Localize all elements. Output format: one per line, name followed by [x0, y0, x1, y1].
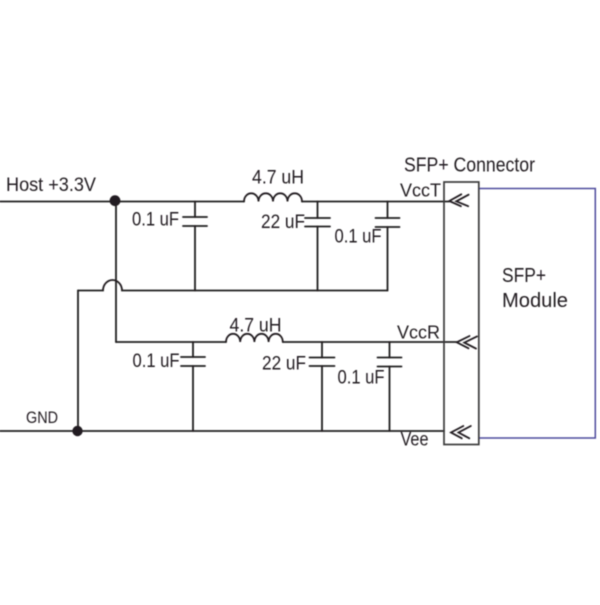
svg-text:0.1 uF: 0.1 uF	[335, 227, 382, 248]
svg-text:VccR: VccR	[397, 323, 440, 343]
label: L1 value 4.7 uH	[252, 168, 304, 189]
svg-text:VccT: VccT	[400, 181, 441, 201]
wire: L1 output to VccT pin	[302, 201, 449, 203]
wire: Host +3.3V rail from left edge to inductor L1	[0, 201, 244, 203]
capacitor C5 bottom lead	[321, 366, 323, 431]
wire: VccR rail from feed to inductor L2	[116, 341, 226, 343]
node: GND junction dot	[72, 426, 82, 436]
inductor L2 4.7 uH	[226, 334, 283, 342]
node: +3.3V junction dot	[110, 195, 121, 206]
capacitor C4 0.1 uF plates	[181, 357, 205, 366]
svg-text:0.1 uF: 0.1 uF	[133, 351, 180, 372]
svg-text:SFP+: SFP+	[502, 265, 546, 287]
label: C4 value 0.1 uF	[133, 351, 180, 372]
capacitor C5 22 uF top lead	[321, 342, 323, 358]
svg-text:4.7 uH: 4.7 uH	[230, 316, 282, 337]
capacitor C6 bottom lead	[389, 367, 391, 432]
svg-text:Module: Module	[502, 290, 568, 312]
capacitor C1 bottom lead	[194, 226, 196, 291]
capacitor C3 bottom lead	[387, 227, 389, 291]
net label: Vee	[401, 430, 429, 451]
svg-text:SFP+ Connector: SFP+ Connector	[404, 155, 535, 177]
svg-text:Vee: Vee	[401, 430, 429, 451]
pin Vee chevron arrow	[451, 426, 471, 438]
net label: GND	[26, 408, 58, 427]
label: C6 value 0.1 uF	[338, 368, 385, 389]
capacitor C2 22 uF top lead	[317, 202, 319, 219]
label: C5 value 22 uF	[262, 354, 306, 375]
svg-text:0.1 uF: 0.1 uF	[338, 368, 385, 389]
label: SFP+ Module text	[502, 265, 568, 312]
svg-text:22 uF: 22 uF	[261, 212, 305, 233]
label: C2 value 22 uF	[261, 212, 305, 233]
pin VccR chevron arrow	[457, 336, 477, 349]
svg-text:GND: GND	[26, 408, 58, 427]
capacitor C3 0.1 uF plates	[376, 218, 400, 227]
label: C1 value 0.1 uF	[132, 210, 179, 231]
block: SFP+ Module box	[479, 189, 596, 439]
capacitor C6 0.1 uF top lead	[389, 342, 391, 358]
capacitor C4 0.1 uF top lead	[192, 342, 194, 357]
svg-text:4.7 uH: 4.7 uH	[252, 168, 304, 189]
inductor L1 4.7 uH	[244, 193, 302, 201]
wire: vertical feed from +3.3V junction down to VccR rail	[115, 202, 117, 343]
svg-text:0.1 uF: 0.1 uF	[132, 210, 179, 231]
capacitor C1 0.1 uF plates	[183, 217, 207, 226]
capacitor C5 22 uF plates	[310, 358, 335, 367]
label: Host +3.3V	[6, 175, 96, 196]
capacitor C1 0.1 uF top lead	[194, 202, 196, 218]
capacitor C2 22 uF plates	[305, 218, 330, 227]
label: SFP+ Connector title	[404, 155, 535, 177]
svg-text:22 uF: 22 uF	[262, 354, 306, 375]
label: L2 value 4.7 uH	[230, 316, 282, 337]
capacitor C2 bottom lead	[317, 227, 319, 291]
wire: GND rail from left edge to connector	[0, 430, 444, 432]
connector J1 SFP+ Connector body	[444, 182, 479, 445]
wire: L2 output to VccR pin	[283, 341, 457, 343]
net label: VccT	[400, 181, 441, 201]
net label: VccR	[397, 323, 440, 343]
wire: left vertical from ground rail down to GND	[77, 291, 79, 432]
pin VccT chevron arrow	[449, 194, 468, 206]
wire: top filter ground rail with hop over feed wire	[78, 280, 388, 291]
label: C3 value 0.1 uF	[335, 227, 382, 248]
capacitor C3 0.1 uF top lead	[387, 202, 389, 219]
capacitor C6 0.1 uF plates	[378, 358, 402, 367]
svg-text:Host +3.3V: Host +3.3V	[6, 175, 96, 196]
capacitor C4 bottom lead	[192, 366, 194, 431]
